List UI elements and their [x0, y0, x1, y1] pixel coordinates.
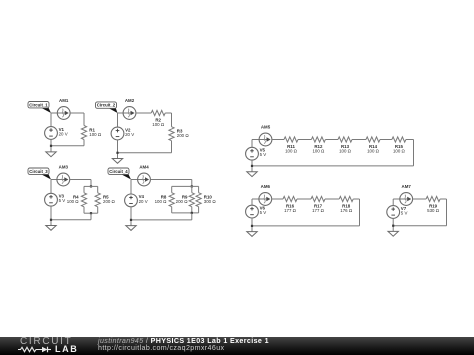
junction c1 bottom [50, 145, 52, 147]
label R16 177 ohm [284, 204, 297, 214]
svg-text:100 Ω: 100 Ω [312, 149, 325, 154]
wire down to R1 [83, 113, 85, 126]
label R1 100 ohm [89, 128, 102, 138]
label R13 100 ohm [339, 144, 352, 154]
svg-text:AM1: AM1 [59, 98, 69, 103]
svg-text:176 Ω: 176 Ω [340, 208, 353, 213]
svg-text:5 V: 5 V [260, 210, 267, 215]
wire R8 bottom stub [171, 207, 173, 213]
ammeter AM2 [123, 98, 136, 119]
svg-text:5 V: 5 V [401, 211, 408, 216]
resistor R11 [284, 137, 298, 142]
label R12 100 ohm [312, 144, 325, 154]
svg-text:530 Ω: 530 Ω [427, 208, 440, 213]
svg-text:177 Ω: 177 Ω [312, 208, 325, 213]
junction c4 bottom [130, 219, 132, 221]
svg-text:100 Ω: 100 Ω [89, 132, 102, 137]
footer caption text [98, 338, 269, 352]
resistor R2 [151, 110, 165, 115]
wire bottom rail c6 [252, 225, 360, 227]
wire node1 to AM1 [51, 112, 57, 114]
resistor R13 [338, 137, 352, 142]
ammeter AM4 [138, 165, 151, 186]
node flag Circuit_1 [28, 102, 51, 114]
resistor R5 [95, 193, 100, 207]
junction c4 top [191, 185, 193, 187]
junction c5 bottom [251, 165, 253, 167]
resistor R12 [311, 137, 325, 142]
wire corner to V6 [251, 199, 253, 205]
svg-text:AM4: AM4 [139, 165, 149, 170]
wire node3 to V3 [50, 180, 52, 194]
label R9 200 ohm [176, 195, 189, 205]
voltage source V1 [45, 127, 68, 140]
wire AM5 to R11 [272, 139, 284, 141]
wire R15 to corner [406, 139, 414, 141]
svg-text:200 Ω: 200 Ω [176, 199, 189, 204]
wire R14 to R15 [380, 139, 392, 141]
wire R1 to bottom rail [83, 140, 85, 146]
wire R12 to R13 [325, 139, 338, 141]
wire V5 to ground [251, 160, 253, 172]
wire V7 to ground [392, 218, 394, 231]
resistor R19 [426, 196, 440, 201]
junction c7 bottom [392, 225, 394, 227]
ammeter AM3 [57, 165, 70, 186]
svg-text:100 Ω: 100 Ω [152, 122, 165, 127]
svg-text:200 Ω: 200 Ω [177, 133, 190, 138]
svg-text:AM3: AM3 [59, 165, 69, 170]
wire node4 to V4 [130, 180, 132, 195]
wire R17 to R18 [325, 198, 339, 200]
wire bottom rail c3 [51, 219, 91, 221]
svg-text:Circuit_1: Circuit_1 [29, 102, 48, 107]
ground c4 [126, 226, 136, 231]
CircuitLab logo squiggle and diode [16, 337, 76, 355]
wire corner to V7 [392, 199, 394, 206]
junction c2 bottom [116, 152, 118, 154]
svg-text:20 V: 20 V [59, 132, 68, 137]
voltage source V5 [246, 147, 267, 160]
label R17 177 ohm [312, 204, 325, 214]
wire R18 to corner [353, 198, 359, 200]
wire V7 rail to AM7 [393, 198, 400, 200]
svg-text:Circuit_2: Circuit_2 [97, 103, 116, 108]
CircuitLab logo text CIRCUIT [20, 337, 72, 347]
wire V4 to ground [130, 207, 132, 226]
ground c5 [247, 172, 257, 177]
label R3 200 ohm [177, 129, 190, 139]
wire V3 to ground [50, 206, 52, 225]
wire R13 to R14 [352, 139, 366, 141]
svg-text:100 Ω: 100 Ω [367, 149, 380, 154]
wire right rail c7 [446, 199, 448, 226]
wire top bar c3 [84, 185, 98, 187]
svg-text:AM7: AM7 [402, 184, 412, 189]
wire right rail c5 [413, 140, 415, 166]
wire feed down c3 [90, 180, 92, 187]
wire V1 to ground [50, 139, 52, 152]
wire bottom rail c7 [393, 225, 446, 227]
svg-text:AM6: AM6 [261, 184, 271, 189]
wire bottom bar c4 [172, 212, 199, 214]
voltage source V4 [125, 194, 148, 207]
junction c6 bottom [251, 225, 253, 227]
label R11 100 ohm [285, 144, 298, 154]
svg-text:100 Ω: 100 Ω [339, 149, 352, 154]
resistor R17 [311, 196, 325, 201]
svg-text:Circuit_3: Circuit_3 [29, 169, 48, 174]
label R10 300 ohm [204, 195, 217, 205]
resistor R1 [81, 126, 86, 140]
ground c1 [46, 152, 56, 157]
resistor R14 [366, 137, 380, 142]
ammeter AM6 [259, 184, 272, 205]
wire bottom rail c4 [131, 219, 192, 221]
wire V6 to ground [251, 218, 253, 232]
label R2 100 ohm [152, 118, 165, 128]
wire AM3 to feed [70, 179, 91, 181]
svg-text:200 Ω: 200 Ω [103, 199, 116, 204]
wire top bar c4 [172, 185, 199, 187]
wire bottom bar c3 [84, 212, 98, 214]
wire R5 top stub [97, 186, 99, 192]
node flag Circuit_2 [96, 102, 118, 113]
node flag Circuit_3 [28, 168, 51, 180]
svg-text:100 Ω: 100 Ω [67, 199, 80, 204]
label R14 100 ohm [367, 144, 380, 154]
resistor R4 [81, 193, 86, 207]
ground c2 [112, 159, 122, 164]
wire R9 bottom stub [191, 207, 193, 213]
resistor R3 [169, 127, 174, 141]
wire corner to V5 [251, 140, 253, 148]
label R15 100 ohm [393, 144, 406, 154]
wire bottom rail c2 [118, 152, 172, 154]
wire AM4 to feed [150, 179, 191, 181]
wire bottom rail c5 [252, 165, 414, 167]
resistor R18 [339, 196, 353, 201]
wire node3 to AM3 [51, 179, 57, 181]
wire V5 rail to AM5 [252, 139, 259, 141]
ammeter AM1 [57, 98, 70, 119]
wire R2 to corner [165, 112, 171, 114]
ammeter AM7 [400, 184, 413, 205]
wire V2 to ground [117, 140, 119, 159]
wire AM6 to R16 [272, 198, 283, 200]
wire AM1 to corner [70, 112, 84, 114]
svg-text:300 Ω: 300 Ω [204, 199, 217, 204]
label R19 530 ohm [427, 204, 440, 214]
wire R4 bottom stub [83, 207, 85, 213]
svg-text:177 Ω: 177 Ω [284, 208, 297, 213]
wire bottom rail c1 [51, 145, 84, 147]
svg-text:20 V: 20 V [125, 132, 134, 137]
svg-text:100 Ω: 100 Ω [285, 149, 298, 154]
resistor R8 [169, 193, 174, 207]
svg-text:20 V: 20 V [139, 199, 148, 204]
svg-text:5 V: 5 V [260, 152, 267, 157]
wire R9 top stub [191, 186, 193, 192]
resistor R10 [196, 193, 201, 207]
svg-text:100 Ω: 100 Ω [393, 149, 406, 154]
node flag Circuit_4 [108, 168, 131, 180]
resistor R16 [283, 196, 297, 201]
svg-text:100 Ω: 100 Ω [155, 199, 168, 204]
label R4 100 ohm [67, 195, 80, 205]
wire down to R3 [171, 113, 173, 127]
wire node2 to V2 [117, 113, 119, 127]
ammeter AM5 [259, 125, 272, 146]
svg-text:5 V: 5 V [59, 198, 66, 203]
resistor R9 [189, 193, 194, 207]
wire node1 to V1 [50, 113, 52, 127]
voltage source V3 [45, 193, 66, 206]
label R18 176 ohm [340, 204, 353, 214]
wire R4 top stub [83, 186, 85, 192]
wire R11 to R12 [298, 139, 311, 141]
wire R19 to corner [440, 198, 446, 200]
wire c3 down to rail [90, 213, 92, 220]
junction c3 bottom [50, 219, 52, 221]
wire node4 to AM4 [131, 179, 138, 181]
voltage source V6 [246, 205, 267, 218]
wire feed down c4 [191, 180, 193, 187]
wire R5 bottom stub [97, 207, 99, 213]
ground c6 [247, 232, 257, 237]
wire right rail c6 [359, 199, 361, 226]
wire R16 to R17 [297, 198, 311, 200]
svg-text:AM2: AM2 [125, 98, 135, 103]
ground c3 [46, 226, 56, 231]
wire R10 bottom stub [198, 207, 200, 213]
svg-text:AM5: AM5 [261, 125, 271, 130]
wire node2 to AM2 [118, 112, 124, 114]
label R8 100 ohm [155, 195, 168, 205]
wire R3 to bottom rail [171, 141, 173, 153]
voltage source V7 [387, 206, 408, 219]
junction c3 top [90, 185, 92, 187]
wire c4 down to rail [191, 213, 193, 220]
ground c7 [388, 231, 398, 236]
junction c4 bottom bar [191, 212, 193, 214]
svg-text:Circuit_4: Circuit_4 [109, 169, 128, 174]
wire AM7 to R19 [413, 198, 427, 200]
CircuitLab logo text LAB [55, 345, 78, 353]
wire V6 rail to AM6 [252, 198, 259, 200]
label R5 200 ohm [103, 195, 116, 205]
wire R10 top stub [198, 186, 200, 192]
wire AM2 to R2 [136, 112, 151, 114]
resistor R15 [392, 137, 406, 142]
wire R8 top stub [171, 186, 173, 192]
junction c3 bottom bar [90, 212, 92, 214]
voltage source V2 [111, 127, 134, 140]
